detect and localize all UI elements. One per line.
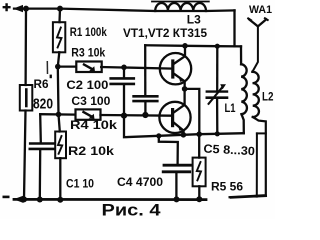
svg-text:Рис. 4: Рис. 4 [102,201,162,220]
svg-text:820: 820 [33,96,53,113]
svg-text:VT1,VT2 КТ315: VT1,VT2 КТ315 [123,26,207,40]
svg-text:R2 10k: R2 10k [68,144,114,158]
svg-text:L3: L3 [187,13,201,27]
svg-text:WA1: WA1 [249,4,272,16]
svg-text:R1 100k: R1 100k [70,25,107,39]
svg-text:L1: L1 [225,101,236,115]
svg-text:C4 4700: C4 4700 [117,175,163,189]
svg-text:C1 10: C1 10 [66,177,94,191]
svg-text:R5 56: R5 56 [211,180,243,194]
svg-text:C3 100: C3 100 [71,94,110,108]
svg-text:C5 8...30: C5 8...30 [203,142,256,159]
svg-text:L2: L2 [262,90,274,104]
svg-text:R4 10k: R4 10k [70,118,117,132]
svg-text:R3 10k: R3 10k [71,46,105,60]
svg-text:R6: R6 [34,77,49,91]
svg-text:C2 100: C2 100 [66,78,108,92]
